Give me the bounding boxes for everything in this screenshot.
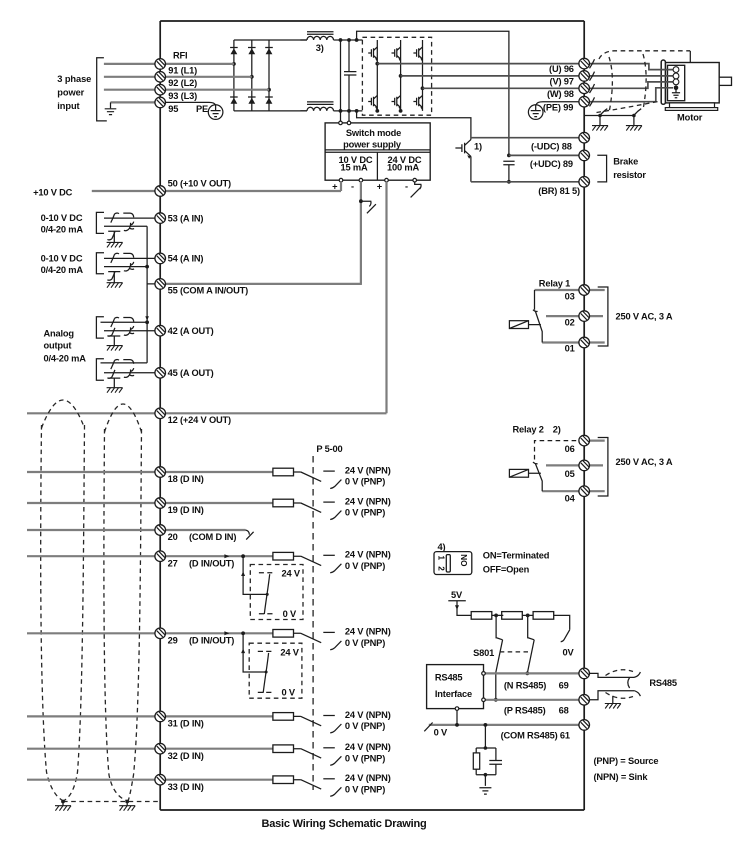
svg-text:input: input: [57, 101, 79, 111]
svg-text:ON=Terminated: ON=Terminated: [483, 550, 550, 560]
svg-text:24 V: 24 V: [280, 647, 299, 657]
svg-text:(COM RS485) 61: (COM RS485) 61: [501, 730, 570, 740]
svg-text:69: 69: [559, 681, 569, 691]
svg-text:Analog: Analog: [44, 328, 75, 338]
svg-text:27: 27: [168, 558, 178, 568]
svg-text:92 (L2): 92 (L2): [168, 78, 197, 88]
svg-text:5V: 5V: [451, 590, 463, 600]
svg-text:53 (A IN): 53 (A IN): [168, 213, 204, 223]
svg-text:2): 2): [553, 425, 561, 435]
svg-text:0-10 V DC: 0-10 V DC: [41, 253, 83, 263]
svg-text:0 V (PNP): 0 V (PNP): [345, 784, 385, 794]
svg-text:0 V (PNP): 0 V (PNP): [345, 477, 385, 487]
svg-text:68: 68: [559, 705, 569, 715]
svg-text:PE: PE: [196, 104, 208, 114]
svg-text:(BR) 81 5): (BR) 81 5): [538, 186, 580, 196]
svg-text:Brake: Brake: [613, 157, 638, 167]
svg-text:54 (A IN): 54 (A IN): [168, 254, 204, 264]
svg-text:power: power: [57, 88, 84, 98]
svg-text:95: 95: [168, 104, 178, 114]
svg-text:05: 05: [565, 469, 575, 479]
svg-text:Motor: Motor: [677, 113, 703, 123]
svg-text:0 V: 0 V: [434, 727, 448, 737]
svg-text:24 V (NPN): 24 V (NPN): [345, 496, 391, 506]
svg-text:3 phase: 3 phase: [57, 74, 91, 84]
svg-text:Interface: Interface: [435, 689, 472, 699]
svg-text:(D IN/OUT): (D IN/OUT): [189, 558, 234, 568]
svg-text:24 V (NPN): 24 V (NPN): [345, 465, 391, 475]
svg-text:1: 1: [436, 556, 445, 561]
svg-text:0-10 V DC: 0-10 V DC: [41, 213, 83, 223]
svg-text:+: +: [377, 182, 383, 192]
svg-text:resistor: resistor: [613, 170, 646, 180]
svg-text:100 mA: 100 mA: [387, 163, 419, 173]
svg-text:RS485: RS485: [435, 673, 463, 683]
svg-text:33 (D IN): 33 (D IN): [168, 782, 204, 792]
svg-text:03: 03: [565, 291, 575, 301]
svg-text:Relay 2: Relay 2: [513, 425, 544, 435]
svg-text:(NPN) = Sink: (NPN) = Sink: [594, 772, 649, 782]
svg-text:24 V (NPN): 24 V (NPN): [345, 627, 391, 637]
svg-text:S801: S801: [473, 648, 494, 658]
svg-text:91 (L1): 91 (L1): [168, 65, 197, 75]
svg-text:power supply: power supply: [343, 139, 402, 149]
svg-text:Relay 1: Relay 1: [539, 278, 570, 288]
svg-text:2: 2: [436, 566, 445, 571]
svg-text:(W) 98: (W) 98: [547, 89, 574, 99]
svg-text:(PE) 99: (PE) 99: [543, 103, 573, 113]
svg-text:42 (A OUT): 42 (A OUT): [168, 326, 214, 336]
svg-text:output: output: [44, 340, 72, 350]
svg-text:0 V: 0 V: [282, 688, 296, 698]
svg-text:Switch mode: Switch mode: [346, 128, 401, 138]
svg-text:250 V AC, 3 A: 250 V AC, 3 A: [616, 312, 673, 322]
svg-text:0 V (PNP): 0 V (PNP): [345, 508, 385, 518]
svg-text:24 V: 24 V: [282, 569, 301, 579]
svg-text:18 (D IN): 18 (D IN): [168, 474, 204, 484]
svg-text:250 V AC, 3 A: 250 V AC, 3 A: [616, 457, 673, 467]
svg-text:29: 29: [168, 635, 178, 645]
svg-text:0/4-20 mA: 0/4-20 mA: [44, 354, 87, 364]
svg-text:4): 4): [438, 542, 446, 552]
svg-text:1): 1): [474, 141, 482, 151]
svg-text:(N RS485): (N RS485): [504, 681, 546, 691]
svg-text:P 5-00: P 5-00: [316, 444, 342, 454]
svg-text:50 (+10 V OUT): 50 (+10 V OUT): [168, 178, 231, 188]
svg-text:Basic Wiring Schematic Drawing: Basic Wiring Schematic Drawing: [261, 818, 426, 830]
svg-text:01: 01: [565, 344, 575, 354]
svg-text:(PNP) = Source: (PNP) = Source: [594, 756, 659, 766]
svg-text:04: 04: [565, 494, 576, 504]
svg-text:(U) 96: (U) 96: [549, 64, 574, 74]
svg-text:0V: 0V: [563, 647, 575, 657]
svg-text:(D IN/OUT): (D IN/OUT): [189, 635, 234, 645]
svg-text:0 V (PNP): 0 V (PNP): [345, 721, 385, 731]
svg-text:(P RS485): (P RS485): [504, 705, 546, 715]
svg-text:32 (D IN): 32 (D IN): [168, 751, 204, 761]
svg-text:19 (D IN): 19 (D IN): [168, 505, 204, 515]
svg-text:(COM D IN): (COM D IN): [189, 532, 236, 542]
svg-text:55 (COM A IN/OUT): 55 (COM A IN/OUT): [168, 285, 249, 295]
svg-text:02: 02: [565, 317, 575, 327]
svg-text:(-UDC) 88: (-UDC) 88: [531, 142, 572, 152]
svg-text:RS485: RS485: [649, 678, 677, 688]
svg-text:(V) 97: (V) 97: [550, 76, 574, 86]
svg-text:20: 20: [168, 532, 178, 542]
svg-text:24 V (NPN): 24 V (NPN): [345, 742, 391, 752]
svg-text:OFF=Open: OFF=Open: [483, 565, 530, 575]
svg-text:24 V (NPN): 24 V (NPN): [345, 550, 391, 560]
svg-text:24 V (NPN): 24 V (NPN): [345, 710, 391, 720]
svg-text:-: -: [405, 182, 408, 192]
svg-text:+10 V DC: +10 V DC: [33, 187, 73, 197]
svg-text:06: 06: [565, 444, 575, 454]
svg-text:0/4-20 mA: 0/4-20 mA: [41, 265, 84, 275]
svg-text:31 (D IN): 31 (D IN): [168, 719, 204, 729]
svg-text:24 V (NPN): 24 V (NPN): [345, 773, 391, 783]
svg-text:0 V (PNP): 0 V (PNP): [345, 753, 385, 763]
svg-text:(+UDC) 89: (+UDC) 89: [530, 159, 573, 169]
svg-text:93 (L3): 93 (L3): [168, 91, 197, 101]
svg-text:45 (A OUT): 45 (A OUT): [168, 368, 214, 378]
svg-text:15 mA: 15 mA: [340, 163, 367, 173]
svg-text:0 V (PNP): 0 V (PNP): [345, 638, 385, 648]
svg-text:0 V: 0 V: [283, 609, 297, 619]
svg-text:3): 3): [316, 43, 324, 53]
svg-text:12 (+24 V OUT): 12 (+24 V OUT): [168, 415, 231, 425]
svg-text:ON: ON: [460, 554, 469, 566]
svg-text:RFI: RFI: [173, 51, 187, 61]
svg-text:0 V (PNP): 0 V (PNP): [345, 561, 385, 571]
svg-text:-: -: [351, 182, 354, 192]
svg-text:0/4-20 mA: 0/4-20 mA: [41, 225, 84, 235]
